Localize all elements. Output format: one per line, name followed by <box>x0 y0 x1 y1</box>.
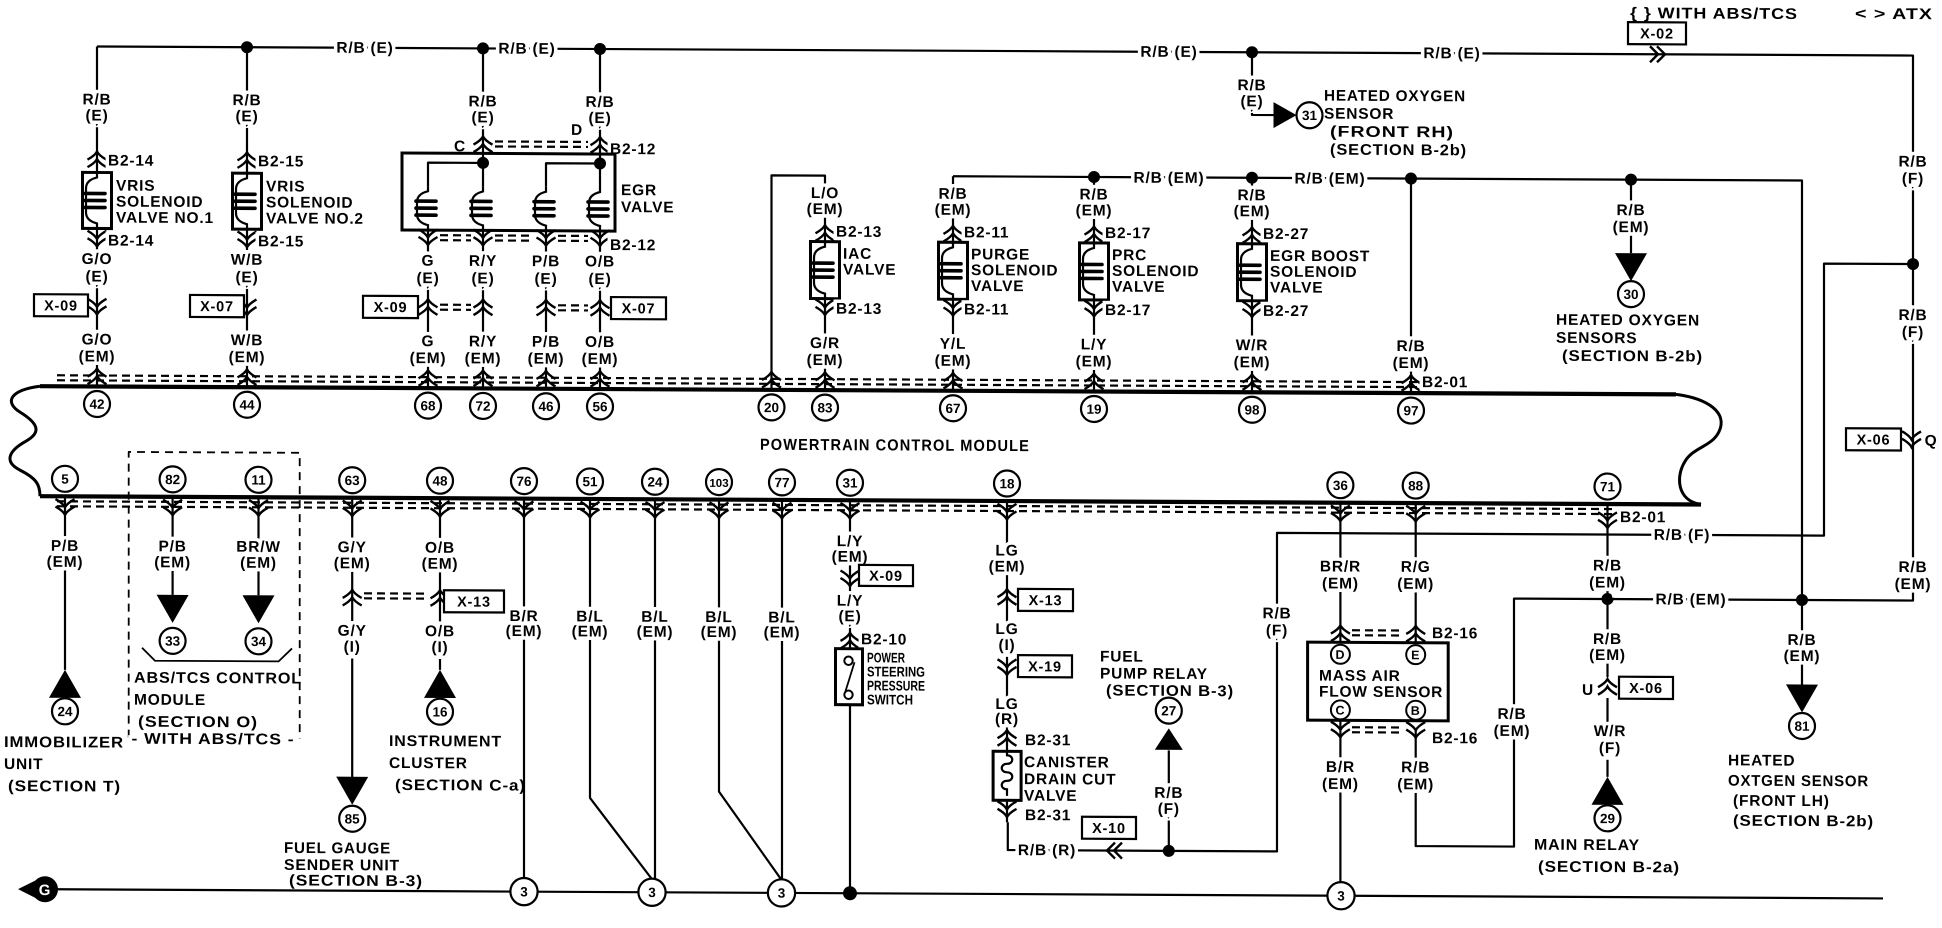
PCM pin 36 <box>1327 472 1353 521</box>
connector X-02 chevrons on wire <box>1650 46 1665 62</box>
svg-text:B2-11: B2-11 <box>964 301 1009 318</box>
svg-text:(FRONT RH): (FRONT RH) <box>1330 124 1454 142</box>
PRC solenoid wires <box>1076 177 1113 392</box>
EGR bottom connectors B2-12 <box>419 229 657 254</box>
PCM pin 98 <box>1239 397 1265 423</box>
svg-text:POWERTRAIN CONTROL MODULE: POWERTRAIN CONTROL MODULE <box>760 437 1030 455</box>
svg-text:(EM): (EM) <box>422 556 459 573</box>
svg-text:G/Y: G/Y <box>338 623 367 640</box>
junction 591 x1802 <box>1796 594 1808 606</box>
svg-text:24: 24 <box>647 475 663 490</box>
svg-text:G/O: G/O <box>82 251 113 268</box>
note ATX <box>1855 6 1933 23</box>
svg-text:R/B: R/B <box>1616 202 1645 219</box>
svg-text:R/B: R/B <box>938 186 967 203</box>
svg-text:(EM): (EM) <box>637 624 674 641</box>
svg-text:FLOW SENSOR: FLOW SENSOR <box>1319 684 1443 702</box>
svg-text:77: 77 <box>774 475 789 490</box>
svg-text:24: 24 <box>57 704 73 719</box>
svg-text:LG: LG <box>995 621 1018 638</box>
svg-text:L/Y: L/Y <box>1081 336 1108 353</box>
bus break symbol right <box>1676 394 1721 504</box>
svg-text:103: 103 <box>709 478 728 490</box>
svg-text:(EM): (EM) <box>935 202 972 219</box>
wire LG pin18 <box>989 501 1026 751</box>
svg-text:71: 71 <box>1600 479 1616 494</box>
svg-text:42: 42 <box>89 397 104 412</box>
svg-text:SOLENOID: SOLENOID <box>266 194 353 211</box>
svg-text:(EM): (EM) <box>764 624 801 641</box>
powertrain control module connector bus (lower row) <box>40 496 1701 504</box>
svg-text:G: G <box>422 333 435 350</box>
ground wire <box>57 889 1883 898</box>
svg-text:88: 88 <box>1408 478 1424 493</box>
svg-text:- WITH ABS/TCS -: - WITH ABS/TCS - <box>132 731 295 749</box>
svg-text:R/B: R/B <box>1497 706 1526 723</box>
label R/B (EM) below junction <box>1589 631 1626 664</box>
svg-text:VALVE NO.2: VALVE NO.2 <box>266 210 364 227</box>
connector X-09 box left <box>34 294 88 316</box>
svg-text:(EM): (EM) <box>1494 723 1531 740</box>
svg-text:U: U <box>1582 682 1594 699</box>
label R/B (E) on wire 1 <box>336 40 393 57</box>
svg-text:3: 3 <box>520 884 528 899</box>
svg-text:VALVE: VALVE <box>621 199 674 216</box>
svg-text:(SECTION B-3): (SECTION B-3) <box>1106 683 1234 701</box>
EGR valve box <box>402 153 615 231</box>
svg-text:30: 30 <box>1623 287 1638 302</box>
connector X-13 chevron pin18 <box>998 589 1017 605</box>
circle 16 <box>427 699 453 725</box>
svg-text:R/B (E): R/B (E) <box>1140 44 1197 61</box>
svg-text:W/B: W/B <box>231 252 264 269</box>
svg-text:(EM): (EM) <box>1393 355 1430 372</box>
label R/B (F) upper <box>1898 153 1927 187</box>
wire B/R (EM) MAF C <box>1322 720 1359 882</box>
svg-text:B2-17: B2-17 <box>1105 302 1151 319</box>
svg-text:LG: LG <box>995 542 1018 559</box>
svg-text:X-07: X-07 <box>622 301 656 317</box>
PCM pin 51 <box>577 468 603 517</box>
svg-text:85: 85 <box>345 812 361 827</box>
label R/B (F) lower <box>1898 307 1927 341</box>
circle 24 <box>52 698 78 724</box>
svg-text:Q: Q <box>1925 433 1938 450</box>
svg-text:MAIN RELAY: MAIN RELAY <box>1534 837 1640 855</box>
label HEATED OXYGEN SENSORS <box>1556 312 1703 366</box>
junction on top wire at x=483 <box>477 42 489 54</box>
EGR coil 2 <box>471 163 491 389</box>
svg-text:(EM): (EM) <box>1234 203 1271 220</box>
svg-text:(E): (E) <box>588 271 611 288</box>
EGR valve top wires C and D <box>454 48 656 164</box>
svg-text:B/R: B/R <box>1326 759 1355 776</box>
dashed box WITH ABS/TCS <box>129 452 300 739</box>
svg-text:R/B: R/B <box>1593 631 1622 648</box>
circle 29 <box>1595 805 1621 831</box>
svg-text:X-13: X-13 <box>1029 593 1063 609</box>
svg-text:(EM): (EM) <box>1076 353 1113 370</box>
svg-text:G/O: G/O <box>82 331 113 348</box>
svg-text:SENSOR: SENSOR <box>1324 106 1394 123</box>
label FUEL GAUGE SENDER UNIT <box>284 840 423 890</box>
svg-text:P/B: P/B <box>532 334 560 351</box>
svg-text:X-09: X-09 <box>44 298 78 314</box>
EGR BOOST solenoid valve <box>1238 226 1371 321</box>
label MASS AIR FLOW SENSOR <box>1319 668 1443 702</box>
svg-text:PUMP RELAY: PUMP RELAY <box>1100 666 1208 684</box>
connector B2-31 chevron lower <box>998 801 1072 824</box>
svg-text:EGR: EGR <box>621 182 657 199</box>
ground connector 3 at x=652 <box>638 879 665 906</box>
arrow to heated oxygen sensors 30 <box>1615 253 1647 281</box>
PURGE solenoid valve <box>939 224 1059 319</box>
label Y/L (EM) <box>935 336 972 389</box>
svg-text:20: 20 <box>764 400 779 415</box>
PCM pin 82 <box>160 466 186 515</box>
svg-text:(E): (E) <box>235 108 258 125</box>
svg-text:SOLENOID: SOLENOID <box>116 194 203 211</box>
svg-text:SOLENOID: SOLENOID <box>971 262 1058 279</box>
label HEATED OXYGEN SENSOR (FRONT RH) <box>1324 88 1467 160</box>
svg-text:VALVE: VALVE <box>1024 788 1077 805</box>
label W/R (EM) <box>1234 337 1271 390</box>
connector X-06 chevron main relay <box>1598 679 1617 695</box>
connector B2-31 chevron upper <box>998 730 1072 749</box>
svg-text:R/B: R/B <box>1237 187 1266 204</box>
wire G/Y pin63 <box>334 498 371 782</box>
svg-text:(EM): (EM) <box>1234 354 1271 371</box>
svg-text:(F): (F) <box>1266 622 1288 639</box>
svg-text:72: 72 <box>475 399 490 414</box>
svg-text:R/B: R/B <box>1154 785 1183 802</box>
svg-text:CLUSTER: CLUSTER <box>389 755 468 772</box>
svg-text:B2-31: B2-31 <box>1025 732 1071 749</box>
svg-text:R/B: R/B <box>1262 605 1291 622</box>
arrow to ABS 34 <box>243 595 275 623</box>
svg-text:B2-01: B2-01 <box>1422 374 1468 391</box>
svg-text:P/B: P/B <box>158 538 186 555</box>
svg-text:(SECTION B-2a): (SECTION B-2a) <box>1538 859 1680 877</box>
connector B2-16 chevrons lower <box>1331 722 1478 748</box>
connector X-13 box pin18 <box>1018 589 1073 611</box>
MAF pin D <box>1331 645 1350 664</box>
svg-text:ABS/TCS CONTROL: ABS/TCS CONTROL <box>134 670 302 688</box>
svg-text:(EM): (EM) <box>935 353 972 370</box>
PURGE solenoid wires <box>935 176 972 391</box>
VRIS solenoid valve no.1 <box>79 46 214 387</box>
svg-text:B2-12: B2-12 <box>610 141 656 158</box>
label B2-01 upper <box>1422 374 1468 391</box>
svg-text:HEATED OXYGEN: HEATED OXYGEN <box>1556 312 1700 330</box>
svg-text:R/B (EM): R/B (EM) <box>1134 170 1205 187</box>
circle 34 <box>246 628 272 654</box>
svg-text:(EM): (EM) <box>807 352 844 369</box>
EGR junction C <box>477 157 489 169</box>
svg-text:MODULE: MODULE <box>134 692 206 709</box>
wire R/B (F) fuel pump <box>1154 750 1183 851</box>
EGR coil 4 <box>588 163 608 389</box>
ground connector 3 at x=524 <box>510 878 537 905</box>
connector X-09 box mid <box>363 296 418 318</box>
arrow to fuel pump relay 27 <box>1155 728 1183 750</box>
circle 85 <box>339 806 365 832</box>
svg-text:(EM): (EM) <box>1322 575 1359 592</box>
PCM pin 71 <box>1595 473 1621 499</box>
connector X-13 dashed pair <box>364 593 428 598</box>
svg-text:VRIS: VRIS <box>266 178 305 195</box>
wire O/B pin48 <box>422 498 459 670</box>
svg-text:X-06: X-06 <box>1857 432 1891 448</box>
svg-text:R/B (EM): R/B (EM) <box>1656 591 1727 608</box>
svg-text:R/B (F): R/B (F) <box>1654 527 1710 544</box>
svg-text:B2-01: B2-01 <box>1620 509 1666 526</box>
junction R/B EM at sensors30 <box>1625 174 1637 186</box>
svg-text:R/B: R/B <box>232 92 261 109</box>
connector X-07 box mid <box>611 297 666 319</box>
wire BR/R (EM) pin36 <box>1320 503 1361 645</box>
connector X-02 box <box>1628 22 1686 44</box>
svg-text:(EM): (EM) <box>229 349 266 366</box>
svg-text:(EM): (EM) <box>528 351 565 368</box>
wire R/B (F) branch loop <box>1008 260 1913 855</box>
svg-text:(EM): (EM) <box>832 549 869 566</box>
label R/B (E) sensor31 <box>1237 77 1266 110</box>
svg-text:FUEL GAUGE: FUEL GAUGE <box>284 840 391 858</box>
PCM pin 44 <box>234 392 260 418</box>
svg-text:97: 97 <box>1403 403 1418 418</box>
svg-text:W/B: W/B <box>231 332 264 349</box>
svg-text:R/B: R/B <box>1898 153 1927 170</box>
wire R/G (EM) pin88 <box>1397 503 1434 645</box>
label R/B (EM) on wire 1 <box>1134 170 1205 187</box>
svg-text:SOLENOID: SOLENOID <box>1112 263 1199 280</box>
svg-text:(E): (E) <box>838 608 861 625</box>
svg-text:B2-11: B2-11 <box>964 224 1009 241</box>
arrow to heated oxygen sensor 31 <box>1274 102 1297 128</box>
PCM pin 97 <box>1398 397 1424 423</box>
svg-text:(F): (F) <box>1902 324 1924 341</box>
label POWER STEERING PRESSURE SWITCH <box>867 649 925 707</box>
svg-text:R/Y: R/Y <box>469 253 497 270</box>
svg-text:(SECTION B-2b): (SECTION B-2b) <box>1562 348 1703 366</box>
bus break symbol left <box>10 386 40 496</box>
svg-text:X-09: X-09 <box>374 300 408 316</box>
PCM pin 88 <box>1403 473 1429 522</box>
wire to sensor 81 <box>1784 600 1821 685</box>
label ABS/TCS CONTROL MODULE <box>134 670 302 732</box>
svg-text:R/B: R/B <box>1396 338 1425 355</box>
svg-text:R/Y: R/Y <box>469 333 497 350</box>
svg-text:81: 81 <box>1794 719 1810 734</box>
svg-text:D: D <box>1335 648 1345 662</box>
connector X-10 chevrons <box>1107 843 1122 859</box>
svg-text:B2-14: B2-14 <box>108 153 154 170</box>
svg-text:(EM): (EM) <box>506 623 543 640</box>
svg-text:(I): (I) <box>344 639 361 656</box>
EGR BOOST solenoid wires <box>1234 178 1271 393</box>
svg-text:R/B: R/B <box>1401 759 1430 776</box>
svg-text:G: G <box>39 882 51 899</box>
EGR coil 3 <box>534 187 554 389</box>
svg-text:(SECTION B-2b): (SECTION B-2b) <box>1330 142 1467 160</box>
svg-text:(F): (F) <box>1158 801 1180 818</box>
PCM pin 76 <box>511 468 537 517</box>
svg-text:P/B: P/B <box>532 253 560 270</box>
svg-text:FUEL: FUEL <box>1100 649 1144 666</box>
circle 31 <box>1297 102 1323 128</box>
svg-text:R/B: R/B <box>1898 559 1927 576</box>
label W/R (F) <box>1594 723 1627 757</box>
svg-text:B2-15: B2-15 <box>258 233 304 250</box>
svg-text:X-10: X-10 <box>1092 821 1126 837</box>
arrow to instrument cluster 16 <box>424 670 456 698</box>
svg-text:83: 83 <box>817 400 833 415</box>
label L/Y (EM) <box>1076 336 1113 389</box>
svg-text:(I): (I) <box>431 639 448 656</box>
connector X-13 box <box>444 590 504 612</box>
wire P/B (EM) pin5 <box>47 496 84 670</box>
svg-text:3: 3 <box>778 886 786 901</box>
PCM pin 77 <box>769 469 795 518</box>
svg-text:29: 29 <box>1600 811 1615 826</box>
svg-text:5: 5 <box>61 472 69 487</box>
connector X-09 box pin31 <box>859 565 913 586</box>
arrow to ABS 33 <box>157 595 189 623</box>
PCM pin 56 <box>587 393 613 419</box>
svg-text:(EM): (EM) <box>334 555 371 572</box>
svg-text:B2-27: B2-27 <box>1263 303 1309 320</box>
svg-text:3: 3 <box>648 885 656 900</box>
svg-text:R/B: R/B <box>1787 632 1816 649</box>
svg-text:(EM): (EM) <box>1397 576 1434 593</box>
svg-text:R/B: R/B <box>82 91 111 108</box>
EGR junction D <box>594 157 606 169</box>
svg-text:R/B (E): R/B (E) <box>1423 45 1480 62</box>
MAF pin B <box>1406 701 1425 720</box>
svg-text:W/R: W/R <box>1594 723 1627 740</box>
powertrain control module connector bus (upper row) <box>40 386 1676 394</box>
svg-text:O/B: O/B <box>425 540 455 557</box>
label IMMOBILIZER UNIT <box>4 734 124 796</box>
svg-text:SWITCH: SWITCH <box>867 691 913 707</box>
svg-text:VRIS: VRIS <box>116 178 155 195</box>
label CANISTER DRAIN CUT VALVE <box>1024 754 1116 805</box>
svg-text:36: 36 <box>1333 478 1349 493</box>
svg-text:O/B: O/B <box>585 334 615 351</box>
svg-text:(E): (E) <box>85 268 108 285</box>
svg-text:B2-12: B2-12 <box>610 237 656 254</box>
arrow to fuel gauge 85 <box>336 777 368 805</box>
bracket under 33/34 <box>142 648 292 662</box>
svg-text:G/R: G/R <box>810 335 840 352</box>
svg-text:B2-10: B2-10 <box>861 631 907 648</box>
MAF pin E <box>1406 645 1425 664</box>
svg-text:(EM): (EM) <box>989 558 1026 575</box>
wire pin71 riser <box>1606 504 1608 777</box>
connector B2-10 chevron <box>841 631 908 649</box>
svg-text:R/G: R/G <box>1401 559 1431 576</box>
arrow to main relay 29 <box>1592 777 1624 805</box>
svg-text:X-19: X-19 <box>1028 659 1062 675</box>
svg-text:16: 16 <box>432 704 448 719</box>
svg-text:B2-27: B2-27 <box>1263 226 1309 243</box>
circle 30 <box>1618 281 1644 307</box>
PCM pin 18 <box>994 470 1020 519</box>
PCM pin 72 <box>470 393 496 419</box>
svg-text:(EM): (EM) <box>1895 576 1932 593</box>
svg-text:63: 63 <box>345 473 361 488</box>
connector X-19 chevron <box>998 659 1017 675</box>
PCM pin 103 <box>706 469 732 518</box>
label R/B (EM) riser 1514 <box>1494 706 1531 740</box>
svg-text:R/B: R/B <box>1237 77 1266 94</box>
svg-text:(EM): (EM) <box>47 554 84 571</box>
wire BR/W (EM) pin11 <box>236 497 281 595</box>
svg-text:(SECTION B-3): (SECTION B-3) <box>289 872 423 890</box>
label R/B (EM) right column <box>1895 559 1932 593</box>
label R/B (EM) sensors30 <box>1613 202 1650 236</box>
svg-text:31: 31 <box>842 476 858 491</box>
PCM pin 19 <box>1081 396 1107 422</box>
note WITH ABS/TCS <box>1630 5 1798 23</box>
svg-text:(F): (F) <box>1902 171 1924 188</box>
connector X-19 box <box>1018 655 1072 677</box>
svg-text:(F): (F) <box>1599 740 1621 757</box>
svg-text:G/Y: G/Y <box>338 539 367 556</box>
PCM pin 20 <box>759 394 785 420</box>
svg-text:CANISTER: CANISTER <box>1024 754 1110 771</box>
svg-text:B2-31: B2-31 <box>1025 807 1071 824</box>
svg-text:INSTRUMENT: INSTRUMENT <box>389 733 502 751</box>
svg-text:51: 51 <box>582 474 598 489</box>
svg-text:B2-15: B2-15 <box>258 153 304 170</box>
svg-text:HEATED: HEATED <box>1728 752 1795 769</box>
svg-text:R/B (E): R/B (E) <box>336 40 393 57</box>
junction R/B EM at pin97 riser <box>1405 173 1417 185</box>
svg-text:O/B: O/B <box>585 253 615 270</box>
svg-text:B: B <box>1411 704 1421 718</box>
ground junction pin31 <box>843 886 857 900</box>
svg-text:(EM): (EM) <box>79 348 116 365</box>
wire B/L (EM) pin77 <box>764 500 801 880</box>
svg-text:(E): (E) <box>471 109 494 126</box>
label R/B (E) on wire 3 <box>1140 44 1197 61</box>
svg-text:33: 33 <box>165 634 181 649</box>
connector X-09 dashed pair <box>440 305 471 310</box>
svg-text:(EM): (EM) <box>582 351 619 368</box>
svg-text:11: 11 <box>251 473 266 488</box>
svg-text:B2-14: B2-14 <box>108 233 154 250</box>
svg-text:R/B (E): R/B (E) <box>498 40 555 57</box>
svg-text:(EM): (EM) <box>240 555 277 572</box>
circle 27 <box>1156 698 1182 724</box>
label WITH ABS/TCS <box>132 731 295 749</box>
svg-text:D: D <box>571 122 583 139</box>
svg-text:3: 3 <box>1337 888 1345 903</box>
svg-text:44: 44 <box>239 397 255 412</box>
svg-text:R/B (EM): R/B (EM) <box>1295 170 1366 187</box>
svg-text:UNIT: UNIT <box>4 756 43 773</box>
PCM pin 63 <box>339 467 365 516</box>
svg-text:(R): (R) <box>995 711 1019 728</box>
svg-text:R/B: R/B <box>1079 186 1108 203</box>
svg-text:VALVE NO.1: VALVE NO.1 <box>116 210 214 227</box>
wire L/Y pin31 <box>832 500 869 893</box>
svg-text:DRAIN CUT: DRAIN CUT <box>1024 771 1116 788</box>
svg-text:< > ATX: < > ATX <box>1855 6 1933 23</box>
svg-text:W/R: W/R <box>1236 337 1269 354</box>
